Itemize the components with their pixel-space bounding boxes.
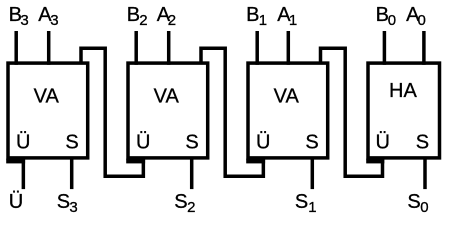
svg-text:S: S: [416, 132, 429, 154]
thick bottom-left edge segment U1: [6, 159, 25, 164]
wire B0 input: [383, 31, 387, 65]
svg-text:VA: VA: [34, 86, 60, 108]
wire sum S0 output: [423, 157, 427, 189]
wire A2 input: [167, 31, 171, 65]
half adder HA box U4: [368, 63, 440, 158]
thick bottom-left edge segment U4: [366, 159, 384, 164]
svg-text:Ü: Ü: [16, 132, 30, 154]
wire carry out U1: [22, 157, 26, 189]
wire carry U2 to U1: [81, 48, 143, 176]
svg-text:Ü: Ü: [9, 191, 23, 213]
svg-text:Ü: Ü: [136, 132, 150, 154]
svg-text:Ü: Ü: [256, 132, 270, 154]
wire A1 input: [287, 31, 291, 65]
svg-text:VA: VA: [154, 86, 180, 108]
full adder VA (bit 3) box U1: [8, 63, 88, 158]
svg-text:S: S: [65, 132, 78, 154]
wire A0 input: [422, 31, 426, 65]
thick bottom-left edge segment U3: [246, 159, 265, 164]
full adder VA (bit 2) box U2: [128, 63, 208, 158]
full adder VA (bit 1) box U3: [248, 63, 328, 158]
wire B2 input: [134, 31, 138, 65]
svg-text:Ü: Ü: [375, 132, 389, 154]
wire sum S1 output: [311, 157, 315, 189]
wire carry U3 to U2: [201, 48, 263, 176]
svg-text:HA: HA: [389, 80, 417, 102]
wire sum S2 output: [190, 157, 194, 189]
thick bottom-left edge segment U2: [126, 159, 145, 164]
wire sum S3 output: [70, 157, 74, 189]
wire carry U4 to U3: [321, 48, 383, 176]
wire A3 input: [47, 31, 51, 65]
wire B1 input: [255, 31, 259, 65]
wire B3 input: [14, 31, 18, 65]
svg-text:S: S: [185, 132, 198, 154]
svg-text:S: S: [305, 132, 318, 154]
svg-text:VA: VA: [274, 86, 300, 108]
